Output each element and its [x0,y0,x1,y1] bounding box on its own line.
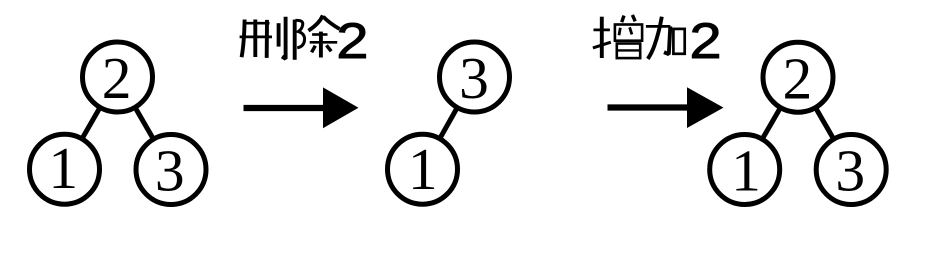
svg-text:2: 2 [689,12,721,69]
node tree3 root 2 [763,42,833,112]
node tree1 root 2 [83,42,153,112]
wire tree3 edge root-right [798,77,851,169]
wire tree2 edge root-left [423,77,475,169]
svg-text:2: 2 [102,45,132,111]
node tree2 left child 1 [388,134,458,204]
svg-text:1: 1 [408,136,438,202]
node tree1 left child 1 [30,134,100,204]
svg-text:2: 2 [336,12,368,69]
wire tree1 edge root-left [65,77,118,169]
node tree3 right child 3 [816,135,886,205]
node tree3 left child 1 [710,135,780,205]
glyph zeng (increase) [593,15,642,58]
svg-text:1: 1 [731,138,761,204]
wire tree1 edge root-right [118,77,172,170]
svg-text:3: 3 [459,45,489,111]
wire tree3 edge root-left [745,77,798,169]
glyph chu (remove) [295,15,340,59]
label delete-2 text (drawn glyphs) [240,12,369,69]
svg-text:3: 3 [155,137,185,203]
arrow 1 (delete) [244,87,359,128]
svg-text:3: 3 [835,138,865,204]
label add-2 text (drawn glyphs) [593,12,722,69]
glyph jia (add) [646,17,685,59]
node tree1 right child 3 [136,135,206,205]
svg-text:2: 2 [783,46,813,112]
arrow 2 (add) [608,87,724,128]
svg-text:1: 1 [48,135,78,201]
node tree2 root 3 [440,42,510,112]
glyph shan (delete) left [240,17,286,59]
